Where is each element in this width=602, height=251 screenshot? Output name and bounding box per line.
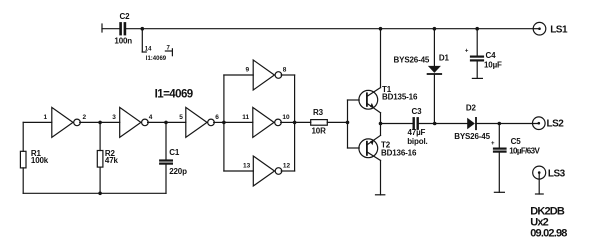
terminal LS2 — [533, 117, 565, 130]
wire — [100, 121, 120, 123]
svg-text:BYS26-45: BYS26-45 — [454, 132, 490, 141]
wire top rail — [142, 28, 533, 30]
svg-text:BD135-16: BD135-16 — [382, 92, 418, 101]
wire bottom rail — [23, 192, 166, 194]
resistor R1 — [20, 149, 48, 168]
node (T1 collector on rail) — [379, 27, 383, 31]
wire emitter line — [381, 123, 413, 125]
svg-text:I1=4069: I1=4069 — [155, 88, 193, 100]
node (C4 on rail) — [475, 27, 479, 31]
svg-text:DK2DB: DK2DB — [530, 205, 565, 217]
wire output bus vertical — [294, 75, 296, 171]
wire — [327, 121, 347, 123]
wire — [166, 121, 186, 123]
svg-text:bipol.: bipol. — [407, 137, 427, 146]
svg-text:5: 5 — [179, 114, 183, 121]
wire — [22, 168, 24, 193]
svg-text:3: 3 — [112, 114, 116, 121]
svg-text:BD136-16: BD136-16 — [381, 148, 417, 157]
inverter I1e — [253, 107, 282, 137]
node (emitter junction) — [379, 122, 383, 126]
svg-text:47k: 47k — [105, 156, 119, 165]
capacitor C4 — [465, 29, 502, 79]
svg-text:+: + — [491, 141, 495, 147]
svg-text:BYS26-45: BYS26-45 — [394, 56, 430, 65]
node (output bus mid) — [293, 121, 297, 125]
svg-text:LS1: LS1 — [550, 24, 568, 35]
transistor T1 — [348, 29, 418, 124]
svg-text:11: 11 — [242, 114, 249, 121]
svg-text:220p: 220p — [169, 167, 187, 176]
terminal LS1 — [533, 22, 568, 35]
svg-text:10: 10 — [282, 114, 290, 121]
svg-text:2: 2 — [83, 114, 87, 121]
wire — [126, 28, 142, 30]
wire — [498, 153, 500, 193]
svg-text:C1: C1 — [169, 148, 180, 157]
node (gate2 out / C1) — [164, 121, 168, 125]
supply input terminal — [101, 24, 103, 32]
wire — [419, 123, 467, 125]
capacitor C5 — [491, 137, 541, 156]
node (C5 branch) — [498, 122, 502, 126]
wire C1 branch — [165, 122, 167, 159]
C5 ground end bar — [494, 191, 504, 193]
wire bottom row input — [224, 170, 253, 172]
inverter I1b — [120, 107, 149, 137]
signature DK2DB — [530, 205, 567, 239]
svg-text:6: 6 — [215, 114, 219, 121]
svg-text:+: + — [465, 48, 469, 54]
wire — [148, 121, 166, 123]
svg-text:1: 1 — [44, 114, 48, 121]
diode D2 — [454, 103, 490, 140]
node (D1 bottom) — [433, 122, 437, 126]
diode D1 — [394, 29, 450, 124]
capacitor C3 — [407, 107, 427, 146]
wire C5 branch — [498, 124, 500, 148]
IC I1 power pin 7 — [146, 46, 173, 63]
wire — [214, 121, 224, 123]
svg-text:10µF: 10µF — [484, 61, 502, 70]
node (D1 top on rail) — [433, 27, 437, 31]
svg-text:C5: C5 — [511, 137, 522, 146]
svg-text:LS2: LS2 — [547, 119, 565, 130]
svg-text:4: 4 — [149, 114, 153, 121]
node (C2 / rail / pin14) — [141, 27, 145, 31]
wire — [281, 74, 295, 76]
svg-text:12: 12 — [283, 162, 291, 169]
svg-text:D1: D1 — [439, 54, 450, 63]
svg-text:C4: C4 — [486, 51, 497, 60]
wire top row input — [224, 74, 253, 76]
wire — [165, 165, 167, 194]
wire input to gate 1 — [23, 121, 52, 123]
terminal LS3 — [533, 166, 566, 194]
resistor R2 — [97, 149, 118, 167]
svg-text:47µF: 47µF — [408, 128, 426, 137]
wire — [99, 167, 101, 193]
wire R2 branch — [99, 122, 101, 150]
inverter I1a — [52, 107, 80, 137]
svg-text:9: 9 — [246, 66, 250, 73]
wire — [476, 123, 539, 125]
wire mid row input — [224, 121, 253, 123]
node (gate1 out / R2) — [98, 121, 102, 125]
wire input bus vertical — [223, 75, 225, 171]
inverter I1f — [253, 156, 282, 186]
wire to R3 — [295, 121, 311, 123]
svg-text:I1:4069: I1:4069 — [146, 56, 167, 62]
svg-text:100k: 100k — [31, 156, 49, 165]
wire — [80, 121, 100, 123]
svg-text:D2: D2 — [466, 103, 477, 112]
negative supply end bar — [376, 194, 385, 196]
resistor R3 — [311, 108, 328, 136]
svg-text:13: 13 — [243, 162, 251, 169]
wire (left feedback vertical) — [22, 122, 24, 151]
node (input bus) — [222, 121, 226, 125]
node (R2 bottom) — [98, 192, 102, 196]
svg-text:8: 8 — [283, 66, 287, 73]
wire — [102, 28, 119, 30]
wire — [281, 121, 295, 123]
inverter I1d — [253, 60, 282, 90]
svg-text:14: 14 — [145, 47, 152, 53]
svg-text:10µF/63V: 10µF/63V — [509, 147, 540, 156]
wire — [281, 170, 294, 172]
capacitor C1 — [160, 148, 187, 176]
svg-text:09.02.98: 09.02.98 — [530, 227, 567, 239]
svg-text:R3: R3 — [313, 108, 324, 117]
svg-text:C2: C2 — [120, 12, 131, 21]
transistor T2 — [348, 124, 417, 195]
svg-text:100n: 100n — [114, 37, 132, 46]
svg-text:10R: 10R — [312, 126, 327, 135]
IC I1 power pin 14 — [142, 29, 152, 53]
svg-text:C3: C3 — [412, 107, 423, 116]
svg-text:LS3: LS3 — [548, 168, 566, 179]
node (base bus) — [346, 121, 350, 125]
capacitor C2 — [114, 12, 132, 46]
inverter I1c — [186, 107, 215, 137]
wire base bus vertical — [347, 100, 349, 148]
